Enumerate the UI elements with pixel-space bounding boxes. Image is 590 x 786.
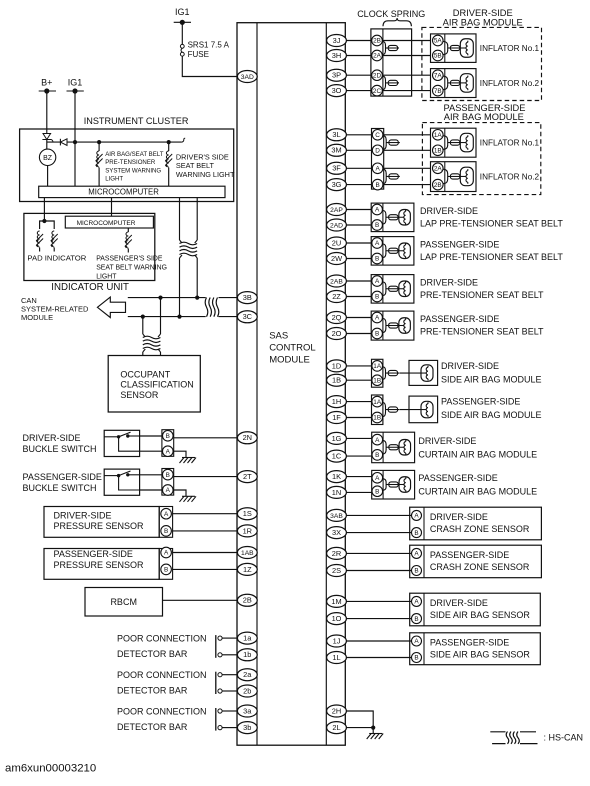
driver inflator 1 box: [431, 34, 477, 63]
strip wall: [382, 432, 384, 463]
power terminal IG1 (top): [174, 7, 191, 25]
svg-text:B: B: [414, 655, 418, 662]
svg-text:3C: 3C: [243, 312, 253, 321]
wire CAN to OCS: [160, 298, 162, 334]
connector 1a: [237, 632, 257, 644]
in-line connector (driver-side lap pre-tensioner seat belt): [382, 211, 386, 215]
driver-side pressure sensor box: [44, 507, 159, 538]
svg-text:B: B: [375, 256, 379, 263]
svg-text:AIR BAG MODULE: AIR BAG MODULE: [444, 112, 524, 122]
power terminal B+: [39, 78, 56, 94]
svg-text:PRE-TENSIONER: PRE-TENSIONER: [105, 159, 156, 166]
wire 1G: [346, 437, 371, 439]
pin A: [412, 510, 422, 520]
CAN-H bus wire: [128, 297, 206, 299]
pin A: [412, 636, 422, 646]
wire: [142, 352, 144, 356]
wire 3G: [346, 184, 371, 186]
connector 3F: [327, 162, 347, 174]
svg-text:7B: 7B: [434, 88, 442, 95]
strip wall: [444, 162, 446, 192]
svg-text:D: D: [375, 148, 380, 155]
svg-text:PASSENGER-SIDE: PASSENGER-SIDE: [54, 549, 133, 559]
wire 2AD: [346, 224, 371, 226]
svg-text:1C: 1C: [332, 452, 342, 461]
svg-text:PRE-TENSIONER SEAT BELT: PRE-TENSIONER SEAT BELT: [420, 290, 544, 300]
connector 2L: [327, 722, 347, 734]
junction: [195, 296, 199, 300]
svg-text:2W: 2W: [331, 254, 342, 263]
strip wall: [382, 275, 384, 304]
driver-side side air bag module strip: [372, 359, 383, 387]
connector 1F: [327, 412, 347, 424]
svg-text:BUCKLE SWITCH: BUCKLE SWITCH: [23, 483, 97, 493]
svg-text:1Z: 1Z: [243, 565, 252, 574]
pin B: [161, 564, 172, 575]
svg-text:A: A: [375, 278, 380, 285]
svg-text:A: A: [164, 511, 169, 518]
in-line connector (passenger inflator 2): [443, 169, 448, 174]
wire B+ into cluster: [46, 93, 48, 131]
wire cluster to indicator: [43, 198, 45, 221]
svg-text:3J: 3J: [333, 36, 341, 45]
svg-text:PAD INDICATOR: PAD INDICATOR: [27, 253, 86, 262]
svg-text:2B: 2B: [243, 596, 252, 605]
pin 1B: [372, 412, 383, 423]
svg-text:1A: 1A: [373, 363, 382, 370]
passenger-side air bag module (dashed): [422, 123, 540, 195]
poor connection detector bar 1 bar: [215, 635, 217, 658]
connector 2a: [237, 669, 257, 681]
svg-text:2b: 2b: [243, 686, 251, 695]
svg-text:B: B: [164, 528, 168, 535]
svg-text:B: B: [375, 331, 379, 338]
squib (passenger inflator 2): [460, 167, 473, 186]
pin 1B: [433, 145, 444, 156]
svg-text:3X: 3X: [332, 528, 341, 537]
svg-text:DETECTOR BAR: DETECTOR BAR: [117, 722, 188, 732]
svg-text:PASSENGER-SIDE: PASSENGER-SIDE: [430, 550, 509, 560]
svg-text:SIDE AIR BAG MODULE: SIDE AIR BAG MODULE: [441, 374, 542, 384]
svg-text:2O: 2O: [332, 329, 342, 338]
svg-text:2AD: 2AD: [330, 222, 343, 229]
passenger inflator 2 box: [431, 162, 477, 192]
wire 2W: [346, 258, 371, 260]
wire IG1 to cluster microcomputer: [74, 142, 76, 186]
zener diode (on B+ feed): [42, 131, 53, 142]
svg-text:PRESSURE SENSOR: PRESSURE SENSOR: [54, 521, 145, 531]
svg-text:LAP PRE-TENSIONER SEAT BELT: LAP PRE-TENSIONER SEAT BELT: [420, 252, 563, 262]
svg-text:B: B: [375, 294, 379, 301]
wire 3J: [346, 40, 371, 42]
connector 3AD: [237, 71, 257, 83]
svg-text:PASSENGER-SIDE: PASSENGER-SIDE: [418, 473, 497, 483]
svg-text:INFLATOR No.2: INFLATOR No.2: [480, 79, 540, 88]
wire to ground: [174, 490, 186, 496]
svg-text:IG1: IG1: [68, 78, 83, 88]
junction: [141, 315, 145, 319]
wire 1H: [346, 401, 371, 403]
squib (driver-side side air bag module): [421, 365, 433, 382]
svg-text:1F: 1F: [332, 413, 341, 422]
CAN wire from cluster (CAN-H): [196, 198, 198, 240]
wire: [222, 690, 237, 692]
svg-text:A: A: [375, 315, 380, 322]
pin B: [412, 653, 422, 663]
wire light1 to microcomputer: [98, 168, 100, 187]
svg-text:1a: 1a: [243, 634, 252, 643]
driver-side lap pre-tensioner seat belt box: [371, 203, 414, 232]
in-line connector (passenger-side pre-tensioner seat belt): [382, 319, 386, 324]
wire 2AP: [346, 209, 371, 211]
svg-text:POOR CONNECTION: POOR CONNECTION: [117, 670, 207, 680]
svg-text:CRASH ZONE SENSOR: CRASH ZONE SENSOR: [430, 524, 530, 534]
wire 1M: [346, 600, 411, 602]
svg-text:1H: 1H: [332, 397, 341, 406]
pin 5A: [433, 35, 444, 46]
wire B to module: [173, 568, 238, 570]
wire 3AB: [346, 514, 411, 516]
squib (driver-side pre-tensioner seat belt): [399, 281, 411, 297]
pin 5B: [433, 50, 444, 61]
wire: [222, 637, 237, 639]
clock spring strip wall: [382, 29, 384, 96]
wire connector to squib box: [399, 409, 409, 411]
svg-text:INFLATOR No.2: INFLATOR No.2: [480, 172, 540, 181]
svg-text:B: B: [375, 452, 379, 459]
pin A: [372, 312, 383, 323]
svg-text:3M: 3M: [331, 146, 341, 155]
connector 2b: [237, 685, 257, 697]
svg-text:SIDE AIR BAG MODULE: SIDE AIR BAG MODULE: [441, 410, 542, 420]
svg-text:DRIVER-SIDE: DRIVER-SIDE: [420, 277, 478, 287]
svg-text:CLOCK SPRING: CLOCK SPRING: [357, 9, 425, 19]
wire twist to 3B: [219, 297, 238, 299]
svg-text:CURTAIN AIR BAG MODULE: CURTAIN AIR BAG MODULE: [418, 487, 537, 497]
ground: [367, 734, 384, 740]
svg-text:1B: 1B: [373, 377, 381, 384]
pin 2B: [433, 179, 444, 190]
svg-text:OCCUPANT: OCCUPANT: [120, 369, 170, 379]
HS-CAN legend symbol: [490, 732, 537, 744]
svg-text:PASSENGER-SIDE: PASSENGER-SIDE: [441, 397, 520, 407]
wire switch to connector: [140, 474, 162, 476]
in-line connector (driver-side side air bag module): [382, 367, 385, 371]
connector 2T: [237, 471, 257, 483]
wire 1D: [346, 365, 371, 367]
poor connection detector bar 2 bar: [215, 672, 217, 694]
driver-side crash zone sensor box: [410, 507, 542, 540]
pin D: [372, 145, 383, 156]
wire 3O: [346, 90, 371, 92]
power terminal IG1 (cluster): [67, 78, 84, 94]
pin B: [412, 566, 422, 576]
passenger-side side air bag sensor box: [410, 633, 541, 665]
svg-text:DRIVER-SIDE: DRIVER-SIDE: [420, 206, 478, 216]
svg-text:1M: 1M: [331, 597, 341, 606]
junction: [73, 140, 77, 144]
wire 3M: [346, 149, 371, 151]
wire 1N: [346, 491, 371, 493]
pin C: [372, 130, 383, 141]
connector 2AB: [327, 275, 347, 287]
connector 1L: [327, 652, 347, 664]
svg-text:A: A: [166, 487, 171, 494]
wire 1C: [346, 455, 371, 457]
svg-text:A: A: [375, 240, 380, 247]
svg-text:B: B: [166, 472, 170, 479]
passenger inflator 1 box: [431, 128, 477, 157]
SAS module inner left wall: [256, 23, 258, 746]
connector 1B: [327, 374, 347, 386]
svg-text:3G: 3G: [332, 180, 342, 189]
wire 1B: [346, 379, 371, 381]
svg-text:PASSENGER-SIDE: PASSENGER-SIDE: [430, 638, 509, 648]
wire connector to squib box: [399, 372, 409, 374]
svg-text:BUCKLE SWITCH: BUCKLE SWITCH: [23, 444, 97, 454]
wire A to module: [173, 513, 238, 515]
wire to ground: [372, 728, 374, 734]
wire 3L: [346, 134, 371, 136]
connector 2O: [327, 328, 347, 340]
svg-text:3O: 3O: [332, 86, 342, 95]
twisted pair (CAN bus to SAS module): [205, 298, 208, 317]
passenger-side pressure sensor box: [44, 549, 159, 580]
svg-text:1B: 1B: [332, 376, 341, 385]
wire 2Z: [346, 296, 371, 298]
driver-side buckle switch SW1 box: [104, 430, 139, 456]
svg-text:1S: 1S: [243, 509, 252, 518]
wire 3H: [346, 55, 371, 57]
in-line connector (passenger lower): [383, 169, 387, 174]
svg-text:DRIVER-SIDE: DRIVER-SIDE: [418, 436, 476, 446]
svg-text:1G: 1G: [332, 434, 342, 443]
svg-text:IG1: IG1: [175, 7, 190, 17]
pin B: [163, 469, 174, 480]
indicator unit box: [24, 213, 155, 280]
svg-text:SIDE AIR BAG SENSOR: SIDE AIR BAG SENSOR: [430, 610, 531, 620]
svg-text:5B: 5B: [434, 53, 442, 60]
svg-text:B: B: [414, 530, 418, 537]
svg-text:B: B: [375, 488, 379, 495]
wire 2U: [346, 242, 371, 244]
wire: [39, 248, 41, 252]
connector 1J: [327, 635, 347, 647]
connector 3H: [327, 50, 347, 62]
wire: [53, 248, 55, 252]
wire switch to connector: [140, 450, 162, 452]
svg-text:A: A: [414, 599, 419, 606]
pin B: [372, 253, 383, 264]
svg-text:C: C: [375, 132, 380, 139]
svg-text:2T: 2T: [243, 472, 252, 481]
passenger-side lap pre-tensioner seat belt box: [371, 237, 414, 266]
svg-text:A: A: [375, 437, 380, 444]
connector 1D: [327, 360, 347, 372]
connector 2W: [327, 253, 347, 265]
svg-text:A: A: [375, 166, 380, 173]
wire 2O: [346, 333, 371, 335]
pin A: [372, 238, 383, 249]
passenger-side side air bag module box: [409, 396, 438, 423]
connector 3AB: [327, 509, 347, 521]
svg-text:2AP: 2AP: [330, 207, 343, 214]
driver-side side air bag sensor box: [410, 593, 541, 626]
in-line connector (driver inflator 1): [443, 42, 448, 46]
clock spring box: [371, 29, 412, 96]
connector 1M: [327, 595, 347, 607]
driver-side side air bag module box: [409, 360, 438, 385]
pin 7A: [433, 70, 444, 81]
svg-text:7A: 7A: [434, 72, 443, 79]
svg-text:SIDE AIR BAG SENSOR: SIDE AIR BAG SENSOR: [430, 650, 531, 660]
wire 3X: [346, 532, 411, 534]
svg-text:SYSTEM WARNING: SYSTEM WARNING: [105, 167, 161, 174]
pin B: [372, 220, 383, 231]
cluster internal bus wire: [47, 141, 181, 143]
pin B: [163, 431, 174, 442]
connector 3X: [327, 527, 347, 539]
connector 2Q: [327, 312, 347, 324]
svg-text:2B: 2B: [434, 182, 442, 189]
CAN wire to bus: [196, 258, 198, 298]
svg-text:DRIVER-SIDE: DRIVER-SIDE: [54, 510, 112, 520]
svg-text:2A: 2A: [373, 53, 382, 60]
wires to pad indicator lamps: [40, 221, 55, 229]
in-line connector (passenger upper): [383, 136, 387, 140]
CAN-L bus wire: [128, 316, 206, 318]
junction: [371, 726, 375, 730]
svg-text:3L: 3L: [332, 130, 340, 139]
svg-text:PASSENGER-SIDE: PASSENGER-SIDE: [420, 314, 499, 324]
wire A to module: [173, 552, 238, 554]
svg-text:A: A: [375, 207, 380, 214]
in-line connector (driver inflator 2): [443, 76, 448, 80]
connector 2Z: [327, 291, 347, 303]
svg-text:DRIVER-SIDE: DRIVER-SIDE: [441, 361, 499, 371]
wire: [222, 710, 237, 712]
strip wall: [444, 34, 446, 63]
svg-text:1O: 1O: [332, 614, 342, 623]
wire 1J: [346, 640, 411, 642]
svg-text:INFLATOR No.1: INFLATOR No.1: [480, 139, 540, 148]
svg-text:PRE-TENSIONER SEAT BELT: PRE-TENSIONER SEAT BELT: [420, 326, 544, 336]
pin A: [372, 473, 383, 484]
twisted pair (cluster to CAN bus): [180, 240, 198, 258]
svg-text:A: A: [375, 475, 380, 482]
pin A: [372, 276, 383, 287]
svg-text:: HS-CAN: : HS-CAN: [544, 733, 584, 743]
svg-text:PRESSURE SENSOR: PRESSURE SENSOR: [54, 560, 145, 570]
warning light: driver side seat belt: [165, 151, 172, 167]
svg-text:1b: 1b: [243, 650, 251, 659]
svg-text:PASSENGER-SIDE: PASSENGER-SIDE: [23, 472, 102, 482]
svg-text:3B: 3B: [243, 293, 252, 302]
wire twist to 3C: [219, 316, 238, 318]
pin A: [412, 548, 422, 558]
svg-text:POOR CONNECTION: POOR CONNECTION: [117, 706, 207, 716]
svg-text:SEAT BELT: SEAT BELT: [176, 161, 215, 170]
pin 2C: [372, 85, 383, 96]
connector 1Z: [237, 563, 257, 575]
svg-text:POOR CONNECTION: POOR CONNECTION: [117, 633, 207, 643]
in-line connector (clock spring lower): [382, 76, 386, 80]
in-line connector (clock spring upper): [382, 42, 386, 46]
fuse SRS1 7.5 A: [180, 44, 184, 56]
pin B: [372, 179, 383, 190]
junction: [97, 140, 101, 144]
svg-text:3b: 3b: [243, 723, 251, 732]
passenger seat belt warning light: [125, 232, 132, 248]
ground: [180, 458, 197, 464]
svg-text:WARNING LIGHT: WARNING LIGHT: [176, 170, 235, 179]
svg-text:CRASH ZONE SENSOR: CRASH ZONE SENSOR: [430, 562, 530, 572]
squib (passenger-side pre-tensioner seat belt): [399, 318, 411, 334]
wire connector to module: [174, 476, 238, 478]
svg-text:B: B: [164, 567, 168, 574]
wire to warning light 1: [98, 142, 100, 151]
pin A: [372, 434, 383, 445]
pin 2D: [372, 70, 383, 81]
squib (passenger-side side air bag module): [421, 401, 433, 418]
wire 1F: [346, 417, 371, 419]
svg-text:2N: 2N: [243, 433, 252, 442]
svg-text:A: A: [414, 513, 419, 520]
svg-text:2Z: 2Z: [332, 292, 341, 301]
pin B: [372, 291, 383, 302]
pin 1A: [372, 396, 383, 407]
svg-text:MICROCOMPUTER: MICROCOMPUTER: [77, 220, 136, 227]
diode (cluster): [60, 139, 67, 146]
squib (driver-side lap pre-tensioner seat belt): [399, 210, 411, 226]
svg-text:DRIVER-SIDE: DRIVER-SIDE: [430, 512, 488, 522]
strip wall: [423, 593, 425, 626]
wire C to inflator: [384, 134, 431, 136]
connector 3P: [327, 69, 347, 81]
svg-text:1K: 1K: [332, 472, 341, 481]
svg-text:am6xun00003210: am6xun00003210: [5, 763, 96, 775]
svg-text:B: B: [166, 433, 170, 440]
svg-text:2D: 2D: [373, 72, 382, 79]
strip wall: [382, 311, 384, 340]
svg-text:LIGHT: LIGHT: [105, 176, 123, 183]
svg-text:SEAT BELT WARNING: SEAT BELT WARNING: [96, 265, 167, 272]
svg-text:LAP PRE-TENSIONER SEAT BELT: LAP PRE-TENSIONER SEAT BELT: [420, 218, 563, 228]
cluster microcomputer: [39, 186, 225, 197]
svg-text:2R: 2R: [332, 549, 341, 558]
instrument cluster box: [20, 129, 234, 202]
wire A to inflator: [384, 167, 431, 169]
connector 2H: [327, 705, 347, 717]
connector 2N: [237, 432, 257, 444]
svg-text:MODULE: MODULE: [269, 355, 310, 366]
svg-text:1AB: 1AB: [241, 550, 254, 557]
wire 2C to inflator: [383, 90, 431, 92]
pin A: [161, 508, 172, 519]
svg-text:CLASSIFICATION: CLASSIFICATION: [120, 380, 193, 390]
svg-text:1B: 1B: [434, 148, 442, 155]
svg-text:B: B: [414, 616, 418, 623]
svg-text:2U: 2U: [332, 238, 341, 247]
warning light: air bag/seat belt pre-tensioner system: [96, 151, 103, 167]
wire buzzer to microcomputer: [47, 166, 49, 187]
wire microcomputer to lamp3: [127, 228, 129, 232]
wire IG1 to fuse: [181, 24, 183, 45]
svg-text:CURTAIN AIR BAG MODULE: CURTAIN AIR BAG MODULE: [418, 449, 537, 459]
wire 2S: [346, 570, 411, 572]
connector 2S: [327, 565, 347, 577]
wire CAN to OCS: [142, 317, 144, 334]
